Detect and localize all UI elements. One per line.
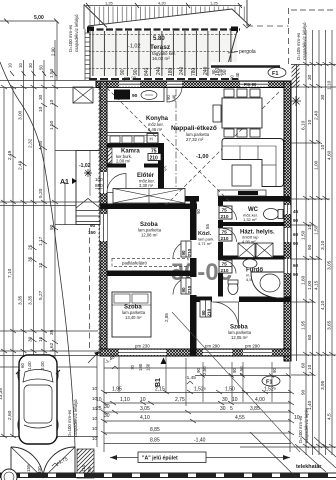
bottom dim row 6 [104, 443, 291, 445]
svg-text:pergola: pergola [239, 49, 256, 55]
sofa L [222, 139, 284, 187]
szoba3 window gap 1 [203, 350, 232, 355]
svg-text:60: 60 [293, 263, 299, 268]
svg-text:1,62: 1,62 [49, 342, 55, 352]
svg-text:90: 90 [293, 218, 299, 223]
furdo door arc [223, 261, 236, 274]
svg-text:90: 90 [230, 75, 235, 80]
ridge dash-dot line [175, 89, 177, 198]
svg-text:35: 35 [28, 256, 34, 262]
svg-text:3,05: 3,05 [140, 406, 150, 412]
svg-text:2,00 m²: 2,00 m² [116, 159, 131, 164]
gate arcs [11, 447, 43, 478]
svg-text:10: 10 [232, 397, 238, 403]
svg-text:30: 30 [104, 413, 110, 419]
svg-text:D=100 mm-es: D=100 mm-es [68, 25, 73, 52]
left dim ticks [1, 85, 58, 438]
svg-text:3,05: 3,05 [327, 260, 333, 270]
svg-text:3,35: 3,35 [18, 295, 24, 305]
svg-text:60: 60 [307, 334, 313, 340]
svg-text:180: 180 [215, 67, 221, 76]
svg-text:-1,45: -1,45 [185, 375, 196, 381]
wall elotér south / szoba1 north [100, 204, 197, 210]
svg-text:3,35: 3,35 [28, 295, 34, 305]
svg-text:pm 90: pm 90 [124, 76, 137, 81]
svg-text:90: 90 [120, 69, 126, 75]
svg-text:210: 210 [187, 248, 192, 256]
door size box hat [219, 228, 232, 241]
top eaves dimension line [86, 5, 242, 7]
right dim ticks [303, 62, 335, 448]
terrace paving grid [89, 31, 237, 76]
svg-text:10: 10 [140, 397, 146, 403]
svg-text:100: 100 [95, 177, 103, 182]
svg-text:8,85: 8,85 [150, 427, 160, 433]
svg-text:4,20: 4,20 [158, 1, 167, 6]
hat door gap [218, 228, 223, 242]
svg-text:50: 50 [39, 65, 44, 70]
svg-text:3,00: 3,00 [18, 110, 24, 120]
terrace door arc [167, 87, 182, 102]
svg-text:10: 10 [294, 415, 300, 421]
svg-text:3,10: 3,10 [320, 240, 326, 250]
terrace right edge slant [228, 31, 237, 64]
svg-text:780: 780 [191, 67, 197, 76]
F1 tag top [268, 68, 286, 78]
svg-text:70: 70 [130, 365, 135, 370]
svg-text:1,00: 1,00 [27, 361, 32, 370]
svg-text:2,60: 2,60 [7, 410, 13, 420]
svg-text:3,95: 3,95 [320, 380, 326, 390]
svg-text:1,95: 1,95 [301, 320, 307, 330]
stove black box [114, 90, 130, 100]
svg-text:1,10: 1,10 [120, 397, 130, 403]
svg-text:90: 90 [181, 250, 186, 256]
svg-text:pm 290: pm 290 [205, 344, 220, 349]
rear window [24, 425, 52, 428]
svg-text:2,75: 2,75 [175, 397, 185, 403]
svg-text:csapadékvíz lefolyó: csapadékvíz lefolyó [73, 399, 78, 437]
svg-text:12,05 m²: 12,05 m² [231, 335, 248, 340]
wall szoba3 north [190, 297, 291, 303]
left wall hatch strip [99, 81, 102, 355]
furdo window right wall [285, 259, 291, 273]
svg-text:13,40 m²: 13,40 m² [125, 315, 142, 320]
TV board [218, 190, 266, 196]
svg-text:210: 210 [221, 214, 229, 220]
plinth line below bottom wall [104, 367, 290, 369]
svg-text:75: 75 [222, 230, 228, 236]
svg-text:F1: F1 [272, 71, 278, 77]
wardrobe X box [113, 189, 185, 204]
svg-text:13,35: 13,35 [0, 388, 4, 400]
svg-text:1,25: 1,25 [105, 1, 114, 6]
svg-text:60: 60 [301, 362, 307, 368]
svg-text:csapadékvíz lefolyó: csapadékvíz lefolyó [302, 22, 307, 60]
szoba3 door size rot [200, 300, 211, 317]
svg-text:90: 90 [272, 368, 277, 373]
svg-text:2,40: 2,40 [314, 110, 320, 120]
drainage slope line [172, 312, 300, 452]
svg-text:4,60: 4,60 [327, 150, 333, 160]
living south wall [164, 196, 290, 202]
wheels [18, 370, 58, 430]
door size box wc [219, 206, 232, 219]
svg-text:D=100 mm-es: D=100 mm-es [67, 410, 72, 437]
roof hip left triangle [84, 5, 107, 30]
svg-text:25: 25 [28, 244, 34, 250]
building arrow line [110, 457, 290, 459]
roof slope line [88, 9, 250, 26]
terrace post left [87, 27, 94, 33]
svg-text:4,00: 4,00 [255, 397, 265, 403]
wall hat/furdo [223, 256, 284, 260]
szoba1 door arc [173, 241, 190, 258]
F1 tag bottom [262, 376, 280, 386]
bottom-right diagonals [250, 432, 336, 478]
wc door arc [223, 207, 237, 221]
terrace bottom size labels row [120, 66, 228, 76]
svg-text:pm 230: pm 230 [135, 344, 150, 349]
svg-text:-1,02: -1,02 [128, 44, 141, 50]
svg-text:-1,40: -1,40 [194, 438, 206, 444]
svg-text:90: 90 [181, 287, 186, 293]
svg-text:840: 840 [144, 67, 150, 76]
eave line right [296, 64, 298, 361]
bed [112, 292, 151, 337]
terrace left edge ladder [89, 29, 91, 80]
svg-text:1,50: 1,50 [301, 230, 307, 240]
svg-text:2,50: 2,50 [202, 366, 207, 375]
svg-text:60: 60 [293, 232, 299, 237]
svg-text:4,5: 4,5 [327, 413, 333, 420]
dining table [222, 98, 262, 128]
wc door gap [218, 206, 223, 220]
szoba1 door size rot [181, 241, 191, 257]
kitchen bottom counter [107, 133, 158, 144]
svg-text:-1,02: -1,02 [79, 163, 91, 169]
bottom dim row 3 [104, 411, 291, 413]
svg-text:1,32 m²: 1,32 m² [243, 217, 257, 222]
bottom dim row 4 [104, 420, 291, 422]
left eave dashed line [89, 228, 91, 348]
svg-text:7,10: 7,10 [7, 268, 13, 278]
svg-text:16,02 m²: 16,02 m² [152, 56, 170, 61]
svg-text:8,85: 8,85 [150, 438, 160, 444]
svg-text:10: 10 [38, 106, 44, 112]
svg-text:150: 150 [146, 363, 151, 371]
svg-text:1,00: 1,00 [314, 160, 320, 170]
sparkle top-right [291, 96, 301, 106]
roof hatch ticks [90, 7, 244, 26]
corner level arrow [88, 354, 97, 364]
svg-text:5,20: 5,20 [38, 188, 44, 198]
chair left [213, 105, 221, 122]
svg-text:25: 25 [96, 406, 102, 412]
wc window right wall [285, 205, 291, 214]
svg-text:180: 180 [138, 363, 143, 371]
svg-text:10: 10 [307, 119, 313, 125]
szoba2 window gap bottom [119, 350, 166, 355]
svg-text:5: 5 [230, 406, 233, 412]
terrace south edge dashes [89, 78, 238, 80]
porch sparkle [84, 169, 92, 177]
wall wc/hat [223, 222, 284, 226]
svg-text:2,90: 2,90 [51, 47, 56, 56]
bottom wall [100, 349, 291, 356]
svg-text:210: 210 [150, 155, 159, 161]
building label box [138, 452, 206, 463]
svg-text:8,46 m²: 8,46 m² [148, 127, 163, 132]
svg-text:6,10: 6,10 [301, 120, 307, 130]
X pad at top-left of building [73, 87, 93, 103]
svg-text:210: 210 [187, 285, 192, 293]
svg-text:90: 90 [90, 223, 96, 228]
svg-text:90: 90 [301, 389, 307, 395]
kamra shelf [108, 148, 113, 163]
svg-text:10: 10 [320, 144, 326, 150]
car body [19, 355, 57, 444]
svg-text:10: 10 [49, 99, 55, 105]
bottom dim row 2 [104, 402, 291, 404]
svg-text:A1: A1 [60, 179, 69, 186]
svg-text:10: 10 [18, 63, 23, 68]
svg-text:10: 10 [307, 224, 313, 230]
svg-text:27,32 m²: 27,32 m² [186, 137, 204, 142]
svg-text:1,95: 1,95 [112, 387, 122, 393]
svg-text:pm 290: pm 290 [245, 344, 260, 349]
svg-text:H: H [150, 137, 153, 142]
right wall outer hatch strip [292, 64, 300, 88]
svg-text:90: 90 [222, 69, 228, 75]
svg-text:"A" jelű épület: "A" jelű épület [142, 456, 178, 462]
side gate hatch [77, 449, 94, 478]
svg-text:1,52ᵃ: 1,52ᵃ [264, 387, 276, 393]
entry door arc [107, 174, 126, 193]
svg-text:10: 10 [307, 364, 313, 370]
hip roof dash NW [107, 88, 158, 139]
svg-text:55: 55 [205, 224, 210, 229]
svg-text:95: 95 [87, 466, 92, 472]
wall kitchen/kamra [107, 143, 164, 148]
right wall [284, 81, 291, 361]
svg-text:90: 90 [201, 310, 206, 316]
svg-text:240: 240 [179, 66, 185, 75]
living window gap [240, 82, 268, 87]
porch dim line [89, 151, 91, 197]
wall east of kamra/elotér [158, 143, 164, 205]
svg-text:210: 210 [207, 308, 212, 316]
roof valley dashed lines [165, 92, 279, 206]
svg-text:2,32: 2,32 [28, 138, 34, 148]
coffee table [232, 165, 251, 186]
svg-text:1,17: 1,17 [38, 236, 44, 246]
furdo toilet [228, 282, 238, 295]
svg-text:3,65: 3,65 [327, 320, 333, 330]
svg-text:2,49: 2,49 [18, 160, 24, 170]
svg-text:90: 90 [293, 241, 299, 246]
entry door gap in left wall [100, 172, 107, 193]
svg-text:F1: F1 [266, 380, 272, 386]
svg-text:45: 45 [293, 209, 299, 214]
svg-text:2,49: 2,49 [7, 150, 13, 160]
svg-text:2,85: 2,85 [164, 313, 169, 322]
svg-text:Nappali-étkező: Nappali-étkező [171, 125, 217, 132]
svg-text:10: 10 [8, 63, 13, 68]
10-chain right of drive [92, 386, 98, 441]
chairs bottom [224, 129, 234, 137]
property line curve left [0, 62, 75, 447]
svg-text:30: 30 [220, 406, 226, 412]
svg-text:30: 30 [320, 94, 326, 100]
terrace post right [231, 27, 238, 33]
svg-text:90: 90 [132, 93, 138, 99]
corner bathtub [251, 272, 284, 298]
svg-text:90: 90 [307, 244, 313, 250]
bottom dim row 5 [104, 432, 291, 434]
svg-text:10: 10 [96, 397, 102, 403]
svg-text:1,60: 1,60 [301, 275, 307, 285]
svg-text:D=105 mm-es: D=105 mm-es [296, 33, 301, 60]
szoba1 window gap left wall [100, 214, 107, 241]
svg-text:75: 75 [222, 208, 228, 214]
svg-text:2,15: 2,15 [155, 387, 165, 393]
svg-text:4,10: 4,10 [140, 415, 150, 421]
left horizontal extension lines [0, 81, 100, 437]
svg-text:-1,00: -1,00 [196, 154, 209, 160]
svg-text:60: 60 [20, 363, 25, 368]
svg-text:1,50: 1,50 [49, 120, 55, 130]
szoba2 door size rot [181, 278, 191, 294]
kitchen window gap [119, 82, 140, 87]
svg-text:35: 35 [49, 329, 55, 335]
svg-text:3,30 m²: 3,30 m² [139, 183, 154, 188]
fridge [147, 134, 158, 144]
svg-text:Terasz: Terasz [150, 44, 171, 51]
corridor west wall [190, 201, 197, 356]
svg-text:240: 240 [156, 66, 162, 75]
svg-text:180: 180 [168, 67, 174, 76]
svg-text:5,00: 5,00 [34, 15, 44, 21]
svg-text:4,55: 4,55 [235, 415, 245, 421]
mirrors [16, 370, 20, 374]
wall kamra/elotér [107, 164, 164, 168]
wc toilet [264, 209, 279, 220]
corridor east wall [218, 201, 223, 302]
svg-text:30: 30 [28, 63, 33, 68]
svg-text:90: 90 [293, 272, 299, 277]
svg-text:30: 30 [104, 404, 110, 410]
svg-text:16: 16 [38, 336, 44, 342]
svg-text:1,52ᵃ: 1,52ᵃ [194, 387, 206, 393]
porch outline [76, 151, 100, 225]
szoba3 window gap 2 [243, 350, 272, 355]
svg-text:2,50: 2,50 [239, 366, 244, 375]
svg-text:4,15: 4,15 [314, 280, 320, 290]
svg-text:90: 90 [133, 69, 139, 75]
svg-text:1,10: 1,10 [327, 80, 333, 90]
furdo door gap [218, 260, 223, 273]
svg-text:30: 30 [38, 94, 44, 100]
top-right dim line [291, 9, 336, 11]
scattered left ticks [10, 103, 58, 344]
sink [141, 91, 157, 100]
svg-text:padlásfeljáró: padlásfeljáró [122, 261, 147, 266]
left wall [100, 81, 107, 355]
svg-text:210: 210 [221, 268, 229, 274]
svg-text:90: 90 [232, 368, 237, 373]
svg-text:12,08 m²: 12,08 m² [141, 233, 158, 238]
szoba2 door gap [190, 277, 197, 295]
svg-text:4,71 m²: 4,71 m² [198, 241, 212, 246]
svg-text:5.80: 5.80 [153, 36, 165, 42]
windshield [23, 370, 53, 383]
szoba3 door arc [213, 302, 239, 328]
pergola dashed outline [246, 0, 248, 26]
kitchen top counter [107, 88, 164, 102]
terrace south beam [211, 62, 238, 76]
hat window right wall [285, 228, 291, 242]
chairs top [224, 89, 234, 97]
right horizontal extension lines [240, 65, 336, 448]
svg-text:1,00: 1,00 [307, 280, 313, 290]
roof [24, 385, 52, 423]
svg-text:4,10: 4,10 [320, 300, 326, 310]
svg-text:90: 90 [196, 209, 201, 214]
svg-text:2,00: 2,00 [40, 361, 45, 370]
door size box furdo [219, 260, 232, 273]
attic hatch dashed [112, 259, 188, 267]
svg-text:1,50: 1,50 [225, 387, 235, 393]
svg-text:240: 240 [203, 66, 209, 75]
svg-text:850: 850 [95, 183, 103, 188]
svg-text:1,50: 1,50 [314, 225, 320, 235]
wall szoba1/szoba2 [107, 271, 190, 277]
svg-text:155: 155 [26, 464, 31, 472]
svg-text:30: 30 [28, 336, 34, 342]
washer X boxes [238, 243, 255, 258]
terrace door gap [167, 82, 182, 87]
bottom dim row 1 [104, 392, 291, 394]
svg-text:110: 110 [81, 464, 86, 472]
svg-text:90: 90 [196, 368, 201, 373]
svg-text:FIX 90: FIX 90 [244, 82, 257, 87]
top-left dim line 5,00 [0, 20, 57, 22]
terrace north edge wall with posts [87, 28, 240, 30]
manhole circle bottom-left [1, 469, 17, 480]
svg-text:30: 30 [307, 74, 313, 80]
svg-text:30: 30 [222, 397, 228, 403]
szoba2 door arc [173, 278, 190, 295]
svg-text:5,27: 5,27 [38, 290, 44, 300]
svg-text:210: 210 [221, 236, 229, 242]
washbasin [243, 259, 257, 268]
top wall [96, 81, 290, 88]
svg-text:10: 10 [38, 262, 44, 268]
bottom extension verticals [103, 358, 105, 452]
svg-text:240: 240 [235, 72, 240, 80]
svg-text:75: 75 [222, 262, 228, 268]
svg-text:1,25: 1,25 [210, 1, 219, 6]
svg-text:csapadékvíz lefolyó: csapadékvíz lefolyó [74, 14, 79, 52]
hat door arc [223, 229, 237, 243]
porch steps [76, 199, 100, 209]
szoba1 door gap [190, 240, 197, 258]
svg-text:csapadékvíz lejtés: csapadékvíz lejtés [304, 408, 309, 443]
